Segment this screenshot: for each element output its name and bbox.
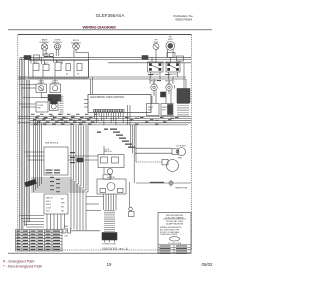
diagram border top solid — [18, 34, 192, 36]
right rear surface element — [166, 41, 175, 57]
connector P1 — [34, 55, 40, 59]
wire label band — [36, 116, 174, 125]
spec box title underline — [163, 218, 186, 220]
latch board lower leads — [47, 214, 65, 230]
band micro labels — [31, 114, 179, 125]
svg-text:SWITCH: SWITCH — [51, 82, 59, 84]
svg-text:SEE NOTE A: SEE NOTE A — [45, 142, 59, 145]
wire bus mid upper B — [18, 78, 186, 80]
bake element B1 — [41, 44, 48, 56]
convection motor assembly — [97, 179, 126, 194]
light switch S1 — [50, 84, 61, 93]
oven relay board — [29, 61, 89, 79]
svg-text:RLY2: RLY2 — [44, 63, 48, 65]
latch motor — [136, 159, 179, 171]
relay board wiring — [31, 57, 93, 94]
door jamb switch — [129, 207, 133, 211]
thermal fuse — [136, 180, 191, 187]
electronic oven control EOC — [88, 95, 151, 113]
page number — [107, 262, 112, 267]
svg-text:* - Non-Energized Path: * - Non-Energized Path — [3, 264, 42, 268]
vertical feeder to right components — [131, 125, 137, 183]
title WIRING DIAGRAM — [82, 25, 116, 30]
harness knot — [25, 179, 37, 187]
left harness branch wires — [20, 85, 99, 228]
date code — [202, 262, 214, 267]
svg-text:SWITCH: SWITCH — [151, 74, 159, 76]
surface receptacle RR — [166, 84, 172, 94]
svg-text:LOCK MTR: LOCK MTR — [176, 146, 186, 148]
oven sensor element — [55, 44, 61, 57]
surface receptacle RF — [151, 84, 157, 96]
EOC left pins — [84, 100, 88, 108]
harness component — [77, 158, 83, 162]
EOC pin leads — [94, 105, 130, 125]
svg-text:SW: SW — [38, 108, 41, 110]
svg-text:SENSOR: SENSOR — [53, 42, 62, 44]
svg-text:RLY1: RLY1 — [34, 62, 38, 64]
main terminal block TB2 — [177, 89, 190, 104]
small junction block — [161, 92, 166, 97]
svg-text:LUG: LUG — [64, 236, 68, 238]
svg-text:K4: K4 — [66, 74, 68, 76]
svg-text:19903091 rev. A: 19903091 rev. A — [101, 247, 128, 251]
door lock switch assembly — [98, 155, 124, 168]
spark module — [48, 95, 61, 102]
svg-text:POWER CORD: POWER CORD — [102, 244, 117, 246]
light cluster drops — [40, 79, 42, 84]
ground plug symbol — [63, 228, 100, 233]
wire jumper — [44, 56, 53, 58]
warmer element box — [161, 104, 173, 116]
inline fuse on bus — [142, 56, 148, 60]
broil element B2 — [73, 43, 89, 57]
svg-text:19: 19 — [107, 262, 112, 267]
wire bus mid upper A — [18, 76, 186, 78]
wiring chart cell text — [17, 231, 61, 251]
nested corner wires — [31, 126, 88, 193]
spec box table — [158, 245, 191, 254]
svg-text:THERM FUSE: THERM FUSE — [175, 188, 188, 190]
svg-text:ELECTRONIC OVEN CONTROL: ELECTRONIC OVEN CONTROL — [91, 97, 126, 99]
oven door circuit box — [44, 147, 68, 175]
svg-text:# - Energized Path: # - Energized Path — [3, 259, 34, 263]
wire bus L2 — [20, 59, 191, 61]
main harness hatch — [60, 96, 64, 123]
svg-text:LIGHT: LIGHT — [38, 82, 44, 84]
wire drop to lock assembly — [103, 146, 105, 155]
cord wire drops — [86, 182, 130, 211]
terminal block harness hatch — [177, 104, 189, 118]
svg-text:RLY3: RLY3 — [56, 61, 60, 63]
svg-text:5995378094: 5995378094 — [175, 18, 192, 22]
wire bus L1 — [20, 56, 191, 58]
header rule — [8, 29, 212, 31]
svg-text:GND: GND — [64, 226, 69, 228]
svg-text:UNIT: UNIT — [154, 42, 160, 44]
svg-text:FAN: FAN — [49, 98, 53, 101]
diagram dashed border — [18, 35, 192, 251]
left harness vertical bundle — [20, 58, 30, 229]
svg-text:UNIT: UNIT — [168, 39, 174, 41]
svg-text:GLEF366ASA: GLEF366ASA — [96, 13, 126, 18]
right front surface element — [153, 43, 159, 55]
wire bus center rows — [18, 117, 191, 125]
wire to spark module — [41, 93, 48, 98]
svg-text:05/02: 05/02 — [202, 262, 214, 267]
RR junction boxes — [167, 53, 175, 58]
oven light L1 — [36, 84, 47, 93]
svg-text:OVEN UNLOCKED: OVEN UNLOCKED — [160, 234, 178, 236]
svg-text:N.O.: N.O. — [46, 211, 51, 213]
relay board harness hatch — [20, 77, 88, 80]
surface unit wiring — [150, 55, 186, 104]
header publication number — [173, 14, 193, 21]
infinite switch S3 — [166, 62, 180, 72]
footer legend energized path — [3, 259, 42, 268]
svg-text:K5: K5 — [77, 74, 79, 76]
page bottom rule — [8, 252, 158, 254]
svg-text:FAN: FAN — [178, 157, 182, 160]
descending harness right of latch board — [71, 178, 86, 230]
svg-text:ELEMENT: ELEMENT — [71, 42, 82, 44]
svg-text:40 AMP MAXIMUM: 40 AMP MAXIMUM — [166, 222, 184, 225]
svg-text:ELEMENT: ELEMENT — [40, 42, 51, 44]
wire bus N — [108, 62, 191, 64]
svg-text:LATCH: LATCH — [46, 197, 53, 200]
door switch box — [36, 102, 48, 112]
door switch cluster — [103, 175, 111, 179]
drawing number — [101, 247, 128, 251]
terminal block TB1 — [24, 56, 31, 60]
svg-text:COM: COM — [46, 207, 51, 209]
corner stack wire labels — [50, 177, 60, 193]
specification box — [158, 213, 191, 254]
strain relief — [129, 212, 135, 217]
hood fan motor — [104, 168, 113, 180]
warmer switch box — [147, 104, 160, 116]
svg-text:SWITCH: SWITCH — [104, 151, 112, 153]
cord harness hatch — [104, 210, 115, 232]
second harness bundle — [34, 119, 42, 192]
power cord connector — [102, 233, 117, 241]
infinite switch S2 — [148, 62, 164, 72]
lock motor connector — [135, 148, 186, 156]
bus micro boxes — [44, 54, 48, 57]
oven door lock board — [44, 194, 68, 214]
cooling fan motor — [50, 101, 59, 111]
EOC bottom pin row — [94, 109, 125, 112]
header model number GLEF366ASA — [96, 13, 126, 18]
svg-text:SWITCH: SWITCH — [169, 74, 177, 76]
approval oval stamp — [170, 237, 180, 241]
wire code labels column — [97, 129, 135, 148]
svg-text:WH: WH — [61, 203, 65, 205]
svg-text:WIRING DIAGRAM: WIRING DIAGRAM — [82, 25, 116, 30]
wiring chart table — [16, 230, 63, 252]
